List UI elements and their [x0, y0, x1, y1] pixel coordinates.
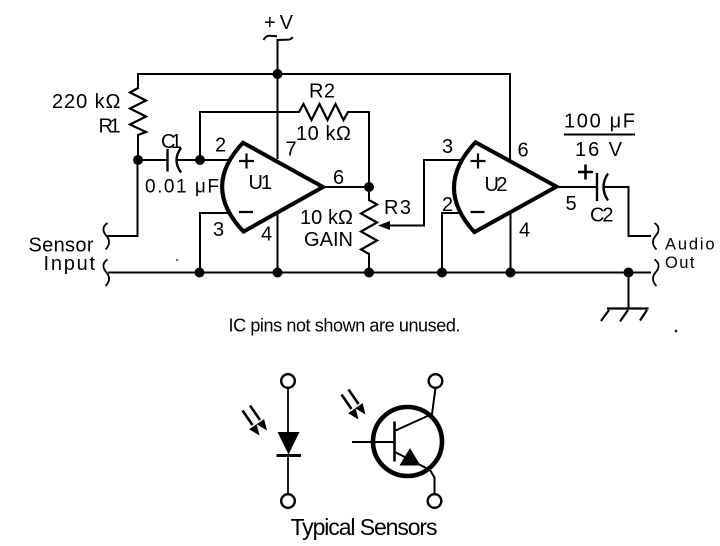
node rail U2 pin4: [506, 268, 516, 278]
photodiode light arrow 1: [250, 406, 267, 431]
wire R3 bottom lead: [368, 254, 370, 273]
svg-text:3: 3: [213, 219, 224, 241]
wire C1 left lead: [138, 159, 168, 161]
svg-text:R2: R2: [309, 81, 335, 103]
connector hook sensor input upper: [103, 223, 109, 250]
svg-text:5: 5: [566, 193, 577, 215]
wire R2 right lead drop: [348, 112, 369, 187]
C2 plus sign: [578, 165, 593, 180]
scan speck near sensor input: [176, 259, 178, 261]
R3 wiper arrow: [378, 221, 390, 230]
op-amp U2: [454, 142, 557, 232]
wire C1 right lead to pin2 node: [179, 159, 201, 161]
node C1/R2/pin2: [195, 155, 205, 165]
capacitor C2: [597, 173, 608, 201]
photodiode top terminal: [281, 374, 295, 388]
wire U2 pin2: [442, 213, 464, 273]
svg-text:10 kΩ: 10 kΩ: [300, 207, 353, 229]
photodiode bottom wire: [287, 455, 289, 494]
wire U1 pin7: [277, 74, 279, 158]
wire bottom ground rail: [109, 272, 650, 274]
wire +V drop: [277, 40, 279, 74]
U2 minus input sign: [471, 211, 485, 213]
wire sensor input branch: [107, 160, 138, 236]
wire R2 left lead: [200, 111, 299, 113]
label C2 rating divider: [564, 134, 635, 136]
svg-text:U1: U1: [249, 172, 273, 194]
phototransistor top terminal: [429, 374, 443, 388]
node rail pin4 U1: [273, 268, 283, 278]
phototransistor base lead: [352, 441, 395, 443]
svg-text:C1: C1: [161, 131, 182, 153]
phototransistor body circle: [373, 407, 442, 476]
svg-text:3: 3: [442, 136, 453, 158]
wire ground drop: [628, 273, 630, 309]
wire C2 right lead to audio out: [605, 187, 651, 236]
svg-text:10 kΩ: 10 kΩ: [296, 123, 351, 145]
svg-text:2: 2: [215, 134, 226, 156]
svg-text:IC pins not shown are unused.: IC pins not shown are unused.: [229, 316, 461, 336]
svg-text:Out: Out: [665, 254, 695, 272]
node R1/C1/sensor: [133, 155, 143, 165]
svg-text:4: 4: [519, 220, 530, 242]
phototransistor emitter lead: [395, 452, 435, 494]
wire U2 pin4: [510, 212, 512, 273]
svg-text:6: 6: [518, 140, 529, 162]
wire R1 bottom to node: [137, 135, 139, 160]
svg-text:4: 4: [261, 224, 272, 246]
svg-text:Audio: Audio: [665, 236, 715, 254]
svg-text:7: 7: [286, 138, 297, 160]
svg-text:6: 6: [333, 167, 344, 189]
photodiode light arrow 2: [243, 411, 260, 436]
node junction dots: [133, 69, 634, 278]
U1 minus input sign: [239, 211, 253, 213]
resistor R2: [299, 104, 348, 120]
node U1 out/R2/R3: [364, 182, 374, 192]
svg-text:GAIN: GAIN: [304, 229, 353, 251]
wire R2 left drop to pin2 node: [199, 112, 201, 160]
node rail audio/ground: [624, 268, 634, 278]
svg-text:Input: Input: [44, 253, 96, 275]
U2 plus input sign: [471, 154, 486, 169]
phototransistor collector lead: [396, 388, 436, 431]
wire U1 pin3: [200, 213, 231, 273]
wire top rail from R1 top to U2 pin6 drop: [138, 74, 510, 161]
node rail R3: [364, 268, 374, 278]
photodiode cathode bar: [277, 454, 302, 457]
wire U1 output pin6: [323, 186, 369, 188]
photodiode sensor: [281, 374, 295, 508]
ground: [601, 309, 649, 322]
photodiode bottom terminal: [281, 494, 295, 508]
svg-text:220 kΩ: 220 kΩ: [52, 91, 121, 113]
phototransistor bottom terminal: [428, 494, 442, 508]
svg-text:Typical Sensors: Typical Sensors: [291, 514, 438, 540]
wire U1 pin2: [200, 159, 231, 161]
scan speck near audio out: [675, 330, 678, 333]
wire U1 pin4: [277, 213, 279, 273]
phototransistor sensor: [352, 374, 442, 508]
photodiode triangle: [278, 432, 300, 455]
phototransistor light arrow 1: [349, 390, 366, 415]
svg-text:R3: R3: [384, 197, 411, 219]
connector hook audio out upper: [653, 223, 659, 250]
phototransistor base bar: [393, 422, 396, 462]
capacitor C1: [168, 148, 182, 173]
+V break symbol: [264, 36, 293, 40]
connector hook audio out lower: [653, 260, 659, 287]
wire R3 wiper to U2 pin3: [390, 160, 464, 226]
node rail pin3: [195, 268, 205, 278]
wire R3 top lead: [368, 187, 370, 200]
svg-text:C2: C2: [590, 205, 614, 227]
op-amp U1: [222, 143, 323, 232]
node rail U2 pin2: [437, 268, 447, 278]
wire U2 output pin5 to C2: [557, 186, 598, 188]
svg-text:2: 2: [442, 194, 453, 216]
svg-text:100 μF: 100 μF: [564, 111, 635, 133]
svg-text:+V: +V: [264, 12, 294, 34]
connector hook sensor input lower: [103, 260, 109, 287]
node +V rail: [273, 69, 283, 79]
phototransistor emitter arrow: [400, 448, 421, 466]
svg-text:U2: U2: [485, 174, 508, 196]
photodiode top wire: [287, 388, 289, 432]
phototransistor light arrow 2: [342, 395, 359, 420]
potentiometer R3: [361, 200, 377, 254]
svg-text:16 V: 16 V: [575, 139, 623, 161]
resistor R1: [130, 88, 146, 135]
U1 plus input sign: [239, 154, 254, 169]
svg-text:R1: R1: [99, 116, 121, 138]
